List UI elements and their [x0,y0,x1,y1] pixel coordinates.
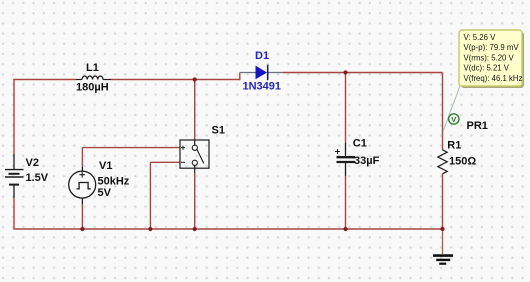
ground [433,256,453,264]
switch S1 [180,140,209,168]
svg-text:L1: L1 [86,62,99,74]
wire C1 branch upper [345,73,347,144]
junction node bottom rail R1/ground [440,227,444,231]
svg-text:33µF: 33µF [354,155,380,167]
wire C1 top lead [345,143,347,156]
wire bottom rail [13,228,442,230]
probe readout box PR1 [459,30,522,86]
wire C1 bottom lead [345,163,347,176]
wire S1 lower control horizontal [150,161,180,163]
wire diode anode segment [240,72,256,74]
svg-text:180µH: 180µH [76,82,109,94]
svg-text:D1: D1 [255,50,269,62]
junction node on top rail at S1 [193,77,197,81]
source V1 [69,171,96,198]
svg-text:V(p-p): 79.9 mV: V(p-p): 79.9 mV [464,43,520,52]
wire diode cathode segment [268,72,283,74]
diode D1 [256,65,268,81]
wire battery top lead [13,154,15,170]
inductor L1 [76,76,111,79]
wire ground stem [442,229,444,254]
battery V2 [5,170,24,185]
wire battery bottom lead [13,185,15,198]
wire top rail right [283,72,443,74]
svg-text:V(freq): 46.1 kHz: V(freq): 46.1 kHz [464,74,523,83]
svg-text:V: 5.26 V: V: 5.26 V [464,33,497,42]
junction node bottom rail S1 [193,227,197,231]
wire S1 lower control vertical [149,162,151,229]
wire right vertical upper [442,73,444,151]
svg-text:150Ω: 150Ω [449,155,476,167]
probe leader line [443,85,461,132]
svg-text:V(rms): 5.20 V: V(rms): 5.20 V [464,53,515,62]
wire left vertical upper [13,80,15,155]
wire V1 to S1 upper horizontal [82,147,180,149]
wire V1 top lead [81,167,83,171]
junction node bottom rail S1 control [148,227,152,231]
svg-text:PR1: PR1 [467,120,488,132]
wire top rail middle [111,79,241,81]
svg-text:V2: V2 [26,157,39,169]
svg-text:50kHz: 50kHz [98,175,130,187]
probe PR1 [449,114,459,124]
wire top rail left [13,79,76,81]
svg-text:S1: S1 [212,125,225,137]
svg-text:V1: V1 [99,160,112,172]
svg-text:5V: 5V [98,187,112,199]
wire left vertical lower [13,198,15,229]
svg-text:C1: C1 [353,138,367,150]
svg-text:R1: R1 [447,140,461,152]
svg-text:V: V [451,115,456,124]
wire S1 top branch [194,80,196,140]
resistor R1 [438,150,447,174]
wire right vertical lower [442,174,444,229]
wire C1 branch lower [345,176,347,229]
svg-text:1.5V: 1.5V [26,172,49,184]
probe readout box shadow [461,32,524,88]
wire S1 bottom stub [194,165,196,173]
wire step up to diode level [239,73,241,81]
wire V1 top vertical [81,148,83,167]
wire S1 top stub [194,140,196,146]
svg-text:1N3491: 1N3491 [243,81,282,93]
wire S1 bottom branch [194,173,196,229]
wire V1 bottom vertical [81,204,83,229]
junction node on top rail at C1 [343,70,347,74]
svg-text:V(dc): 5.21 V: V(dc): 5.21 V [464,64,510,73]
capacitor C1 [335,149,355,162]
junction node bottom rail C1 [343,227,347,231]
junction node bottom rail V1 [80,227,84,231]
wire V1 bottom lead [81,198,83,204]
